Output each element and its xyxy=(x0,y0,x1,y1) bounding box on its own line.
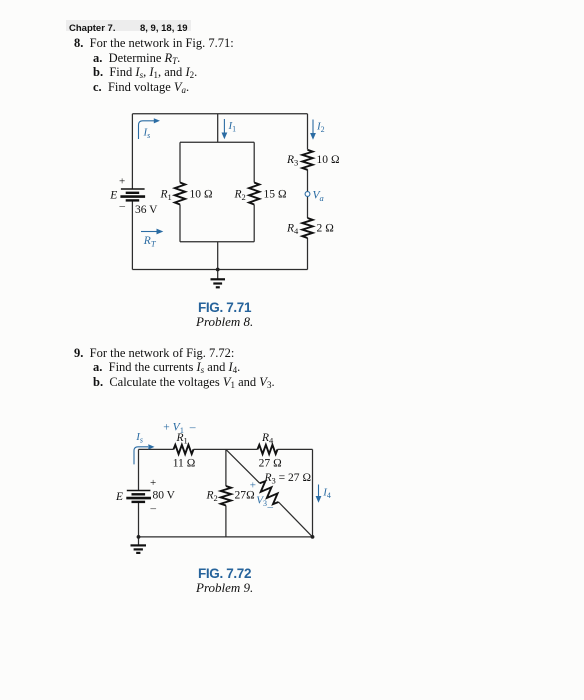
wire: outer loop left (below battery) xyxy=(131,200,133,269)
svg-text:R1: R1 xyxy=(160,189,172,203)
arrow RT xyxy=(141,231,157,233)
problem 9 heading xyxy=(74,347,234,360)
resistor R3 xyxy=(302,150,312,170)
item b xyxy=(93,376,275,389)
header gray band xyxy=(66,20,191,31)
svg-text:R3: R3 xyxy=(286,154,298,168)
svg-text:+ V1 –: + V1 – xyxy=(163,422,195,436)
wire: R1 to middle node xyxy=(194,448,258,450)
wire: outer loop left (top part above battery) xyxy=(131,114,133,189)
svg-text:11 Ω: 11 Ω xyxy=(173,457,196,469)
junction dot (bottom right corner) xyxy=(311,535,315,539)
battery E (36 V) xyxy=(120,189,145,200)
wire: left side above battery xyxy=(138,449,140,490)
ground symbol (fig 7.71) xyxy=(211,279,226,287)
wire: middle branch below R2 xyxy=(225,506,227,537)
wire: outer loop bottom xyxy=(132,269,307,271)
wire: R4 to bottom xyxy=(307,238,309,270)
node a (Va terminal) xyxy=(305,192,310,197)
wire: left side below battery xyxy=(138,502,140,537)
caption fig 7.71 xyxy=(198,301,251,315)
svg-text:Va: Va xyxy=(313,189,324,203)
svg-text:RT: RT xyxy=(143,235,157,249)
svg-text:–: – xyxy=(150,503,157,515)
svg-text:15 Ω: 15 Ω xyxy=(264,189,287,201)
wire: inner rect left below R1 xyxy=(179,205,181,242)
wire: inner rect bottom xyxy=(180,241,254,243)
svg-text:+: + xyxy=(150,477,156,489)
item c xyxy=(93,81,189,94)
svg-text:+: + xyxy=(250,480,256,492)
svg-text:R3 = 27 Ω: R3 = 27 Ω xyxy=(264,472,312,486)
header: problem list numbers xyxy=(140,24,188,34)
wire: inner rect top xyxy=(180,141,254,143)
item a xyxy=(93,361,240,374)
problem 8 heading xyxy=(74,37,234,50)
svg-text:36 V: 36 V xyxy=(135,204,158,216)
wire: R3 to node a xyxy=(307,170,309,192)
svg-text:10 Ω: 10 Ω xyxy=(317,154,340,166)
wire: inner rect right below R2 xyxy=(253,205,255,242)
junction dot (ground tap) xyxy=(216,268,220,272)
current arrow Is (fig 7.72) xyxy=(134,447,148,465)
svg-text:80 V: 80 V xyxy=(153,490,176,502)
svg-text:I4: I4 xyxy=(322,487,331,501)
current arrow Is xyxy=(139,121,155,139)
resistor R1 (horizontal) xyxy=(174,445,194,454)
wire: top left (battery to R1) xyxy=(139,448,174,450)
resistor R4 (horizontal) xyxy=(258,445,278,454)
wire: right branch top (to R3) xyxy=(307,114,309,150)
current arrow I1 xyxy=(223,119,225,133)
resistor R3 (diagonal) xyxy=(256,479,282,505)
current arrow I2 xyxy=(312,120,314,134)
svg-text:E: E xyxy=(115,491,123,503)
wire: inner rect bottom tap to ground bus xyxy=(217,242,219,279)
wire: diagonal upper segment (node to R3) xyxy=(226,449,260,483)
resistor R2 xyxy=(249,183,259,205)
svg-text:R2: R2 xyxy=(234,189,246,203)
wire: middle branch above R2 xyxy=(225,449,227,486)
current arrow I4 xyxy=(318,485,320,497)
svg-text:–: – xyxy=(267,501,274,513)
svg-text:I1: I1 xyxy=(228,120,237,134)
resistor R2 (vertical) xyxy=(221,486,231,506)
resistor R1 xyxy=(175,183,185,205)
ground symbol (fig 7.72) xyxy=(131,545,147,553)
item a xyxy=(93,52,180,65)
battery E (80 V) xyxy=(126,491,151,502)
junction dot (battery bottom) xyxy=(137,535,141,539)
wire: bottom xyxy=(139,536,313,538)
wire: R4 to right corner xyxy=(278,448,313,450)
caption fig 7.72 xyxy=(198,567,251,581)
svg-text:2 Ω: 2 Ω xyxy=(317,223,335,235)
svg-text:–: – xyxy=(119,200,126,212)
svg-text:R4: R4 xyxy=(286,223,299,237)
wire: inner rect left above R1 xyxy=(179,142,181,182)
wire: ground stem xyxy=(138,537,140,545)
svg-text:10 Ω: 10 Ω xyxy=(190,189,213,201)
svg-text:Is: Is xyxy=(143,127,151,141)
wire: top tap to inner rect xyxy=(217,114,219,143)
item b xyxy=(93,66,197,79)
svg-text:+: + xyxy=(119,176,125,188)
svg-text:E: E xyxy=(109,190,117,202)
svg-text:I2: I2 xyxy=(316,121,325,135)
wire: node a to R4 xyxy=(307,197,309,219)
wire: right side xyxy=(312,449,314,537)
wire: inner rect right above R2 xyxy=(253,142,255,182)
svg-text:R4: R4 xyxy=(261,432,274,446)
svg-text:V3: V3 xyxy=(256,495,267,509)
wire: diagonal lower segment (R3 to corner) xyxy=(279,502,313,537)
header: Chapter 7. xyxy=(69,24,115,34)
svg-text:27 Ω: 27 Ω xyxy=(259,457,282,469)
svg-text:Is: Is xyxy=(135,431,143,445)
wire: outer loop top xyxy=(132,113,307,115)
resistor R4 xyxy=(302,218,312,238)
svg-text:R2: R2 xyxy=(206,489,218,503)
